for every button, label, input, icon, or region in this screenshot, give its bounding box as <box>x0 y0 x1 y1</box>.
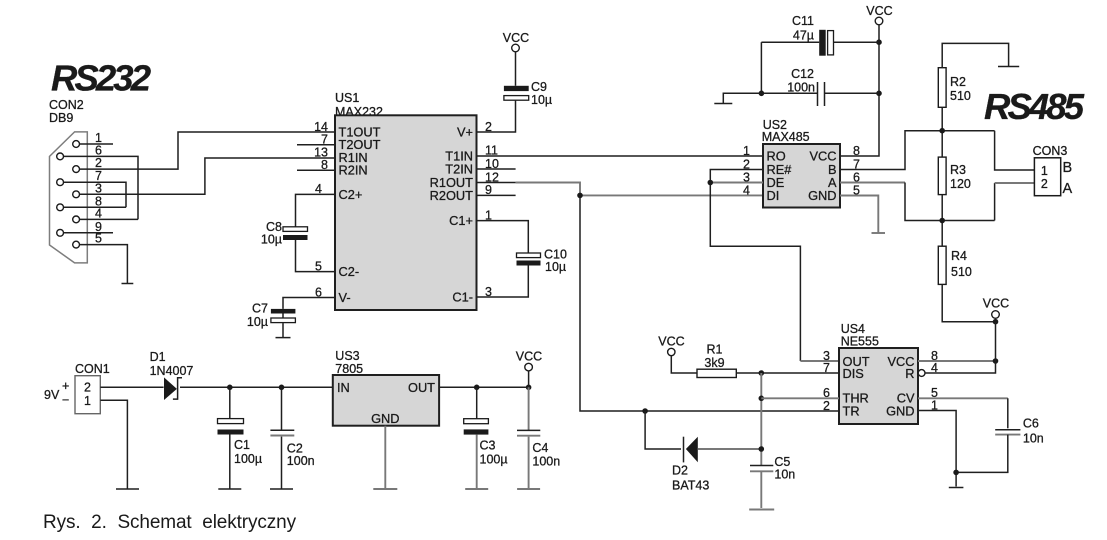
svg-text:MAX485: MAX485 <box>762 130 810 144</box>
svg-text:C1: C1 <box>234 438 250 452</box>
svg-text:R3: R3 <box>950 163 966 177</box>
svg-text:C9: C9 <box>531 80 547 94</box>
svg-text:5: 5 <box>315 259 322 273</box>
svg-text:OUT: OUT <box>408 380 435 395</box>
svg-text:VCC: VCC <box>866 4 892 18</box>
svg-text:C12: C12 <box>791 67 814 81</box>
svg-text:D2: D2 <box>672 464 688 478</box>
svg-text:C11: C11 <box>792 14 814 28</box>
svg-text:GND: GND <box>808 188 836 203</box>
svg-text:NE555: NE555 <box>841 335 879 349</box>
svg-text:47µ: 47µ <box>793 29 814 43</box>
svg-text:2: 2 <box>823 399 830 413</box>
svg-text:4: 4 <box>95 206 102 220</box>
svg-text:D1: D1 <box>150 350 166 364</box>
svg-text:−: − <box>62 393 69 407</box>
svg-text:100n: 100n <box>287 454 315 468</box>
svg-text:510: 510 <box>951 265 972 279</box>
svg-text:DB9: DB9 <box>49 111 73 125</box>
svg-text:9V: 9V <box>44 388 60 402</box>
svg-text:US3: US3 <box>335 349 359 363</box>
svg-text:7: 7 <box>321 133 328 147</box>
svg-text:C3: C3 <box>480 439 496 453</box>
svg-text:C2+: C2+ <box>339 187 363 202</box>
svg-text:100µ: 100µ <box>234 452 262 466</box>
svg-text:GND: GND <box>886 404 914 419</box>
svg-text:8: 8 <box>321 158 328 172</box>
svg-text:CON2: CON2 <box>49 98 84 112</box>
svg-text:6: 6 <box>315 285 322 299</box>
svg-text:3k9: 3k9 <box>704 356 724 370</box>
svg-text:DIS: DIS <box>843 366 864 381</box>
svg-text:R4: R4 <box>951 249 967 263</box>
svg-text:1N4007: 1N4007 <box>150 364 194 378</box>
svg-text:2: 2 <box>95 156 102 170</box>
svg-text:C7: C7 <box>252 302 268 316</box>
svg-text:10µ: 10µ <box>545 260 566 274</box>
svg-text:100µ: 100µ <box>480 453 508 467</box>
svg-text:R1: R1 <box>707 343 723 357</box>
svg-text:10µ: 10µ <box>247 315 268 329</box>
svg-text:CON1: CON1 <box>75 362 110 376</box>
svg-text:5: 5 <box>95 232 102 246</box>
svg-text:V-: V- <box>339 290 351 305</box>
svg-text:GND: GND <box>371 411 399 426</box>
svg-text:8: 8 <box>853 144 860 158</box>
svg-text:2: 2 <box>1041 177 1048 191</box>
svg-text:VCC: VCC <box>503 31 529 45</box>
svg-text:4: 4 <box>743 183 750 197</box>
svg-text:100n: 100n <box>787 81 815 95</box>
svg-text:VCC: VCC <box>516 350 542 364</box>
svg-text:DI: DI <box>767 188 780 203</box>
svg-text:1: 1 <box>743 144 750 158</box>
svg-text:Rys. 2. Schemat elektryczny: Rys. 2. Schemat elektryczny <box>43 512 297 533</box>
svg-text:1: 1 <box>84 394 91 408</box>
svg-text:V+: V+ <box>457 125 473 140</box>
svg-text:IN: IN <box>337 380 350 395</box>
svg-text:R2OUT: R2OUT <box>430 188 474 203</box>
svg-text:C1-: C1- <box>452 290 473 305</box>
svg-text:C2-: C2- <box>339 264 360 279</box>
svg-text:100n: 100n <box>532 455 560 469</box>
svg-text:10µ: 10µ <box>531 93 552 107</box>
svg-text:R: R <box>905 366 914 381</box>
svg-text:510: 510 <box>950 89 971 103</box>
svg-text:C6: C6 <box>1023 417 1039 431</box>
svg-text:BAT43: BAT43 <box>672 479 709 493</box>
svg-text:2: 2 <box>84 381 91 395</box>
svg-text:10µ: 10µ <box>261 233 282 247</box>
svg-text:A: A <box>1063 181 1073 197</box>
svg-text:VCC: VCC <box>658 335 684 349</box>
svg-text:TR: TR <box>843 404 860 419</box>
svg-text:4: 4 <box>315 182 322 196</box>
svg-text:C1+: C1+ <box>449 213 473 228</box>
svg-text:+: + <box>62 379 69 393</box>
svg-text:CON3: CON3 <box>1033 144 1068 158</box>
svg-text:B: B <box>1063 160 1073 176</box>
svg-text:120: 120 <box>950 177 971 191</box>
svg-text:7805: 7805 <box>335 362 363 376</box>
svg-text:1: 1 <box>1041 164 1048 178</box>
svg-text:10n: 10n <box>774 468 795 482</box>
svg-text:R2: R2 <box>950 75 966 89</box>
svg-text:US1: US1 <box>335 91 359 105</box>
svg-text:RS232: RS232 <box>51 58 151 99</box>
svg-text:VCC: VCC <box>983 297 1009 311</box>
svg-text:3: 3 <box>95 181 102 195</box>
svg-text:R2IN: R2IN <box>339 163 368 178</box>
svg-text:RS485: RS485 <box>984 86 1085 127</box>
svg-text:10n: 10n <box>1023 432 1044 446</box>
svg-text:C4: C4 <box>532 441 548 455</box>
